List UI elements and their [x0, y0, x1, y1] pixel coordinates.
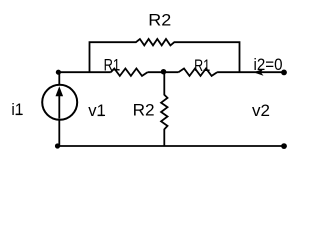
wire to output port	[217, 71, 284, 73]
foot of digit 1 in R1 right	[204, 70, 210, 71]
bottom left node dot	[55, 143, 60, 148]
bottom wire	[58, 145, 284, 147]
svg-text:i1: i1	[11, 101, 23, 119]
foot of digit 1 in i1	[16, 114, 22, 115]
wire between R1 and node	[148, 71, 179, 73]
svg-text:v2: v2	[252, 102, 270, 120]
current source arrowhead	[56, 86, 64, 96]
i2 arrowhead	[254, 69, 264, 76]
node A dot	[56, 70, 61, 75]
wire middle left	[58, 71, 110, 73]
wire current source to bottom	[58, 120, 60, 146]
resistor R2 (top feedback) with wire loop	[90, 39, 240, 72]
svg-text:i2=0: i2=0	[254, 56, 283, 74]
current source I1 circle	[42, 85, 77, 120]
node B dot (top of vertical R2)	[161, 69, 167, 75]
svg-text:v1: v1	[88, 102, 106, 120]
resistor R1 (left)	[111, 69, 148, 76]
svg-text:R2: R2	[133, 102, 155, 120]
output port - dot	[281, 143, 287, 149]
foot of digit 1 in v1	[98, 115, 104, 116]
output port + dot	[281, 70, 287, 76]
resistor R2 (middle vertical)	[161, 72, 167, 146]
wire node A to current source	[58, 72, 60, 85]
svg-text:R1: R1	[104, 56, 121, 74]
current source arrow stem	[58, 95, 60, 119]
svg-text:R2: R2	[148, 12, 171, 30]
resistor R1 (right)	[178, 69, 217, 76]
svg-text:R1: R1	[194, 57, 210, 75]
foot of digit 1 in R1 left	[114, 69, 120, 70]
